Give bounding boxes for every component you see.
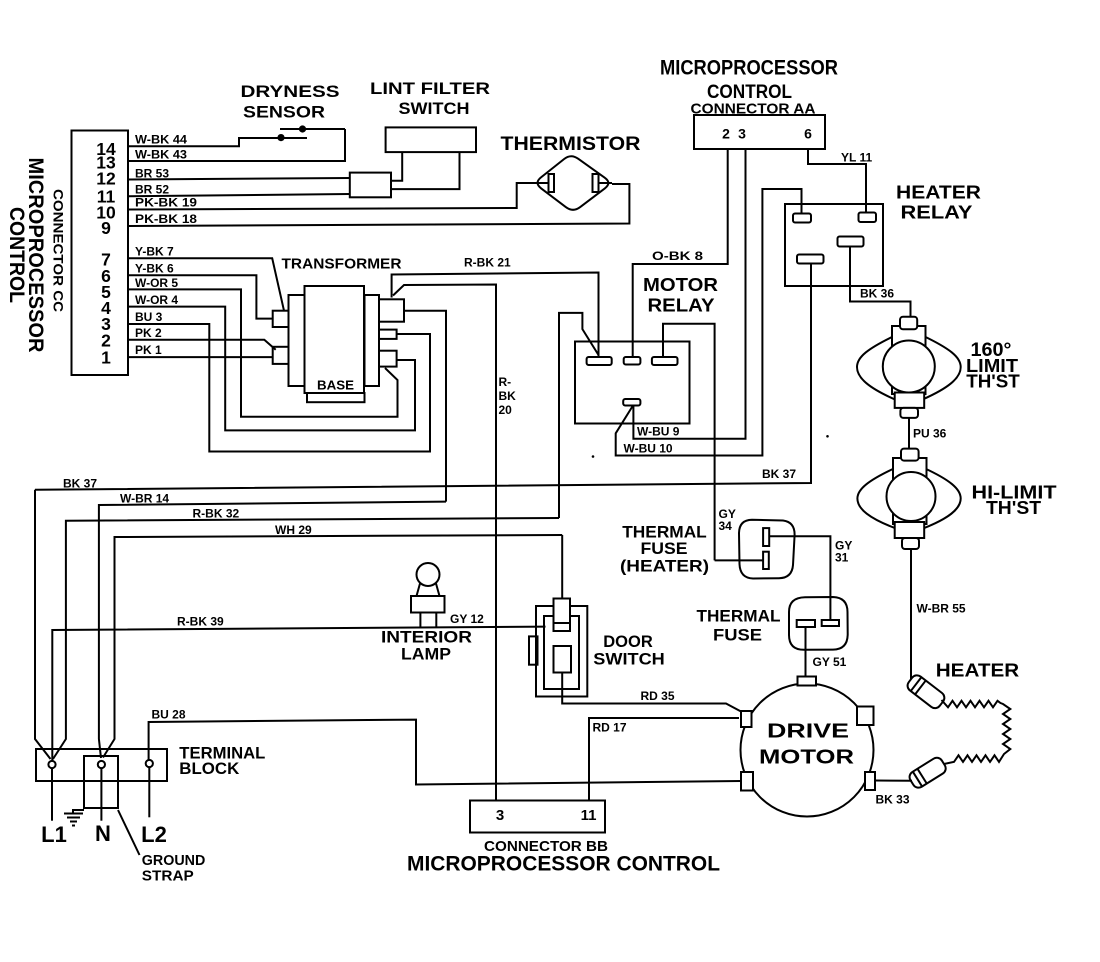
wire BK 33 — [875, 780, 912, 782]
wire Y-BK 7 — [128, 258, 284, 310]
transformer terminal right-top — [379, 299, 404, 321]
interior lamp legs — [420, 613, 436, 628]
svg-text:1: 1 — [101, 348, 111, 368]
svg-text:LAMP: LAMP — [401, 645, 451, 664]
svg-text:PK-BK 19: PK-BK 19 — [135, 196, 197, 210]
svg-text:THERMAL: THERMAL — [697, 608, 781, 626]
hi-limit thermostat lower block — [895, 522, 925, 538]
svg-text:BU 28: BU 28 — [152, 708, 186, 722]
door switch left tab — [529, 636, 538, 664]
wire W-BK 43 — [128, 129, 345, 161]
svg-text:RELAY: RELAY — [901, 202, 974, 223]
svg-text:3: 3 — [738, 126, 746, 142]
heater element zigzag — [942, 700, 1011, 765]
motor relay terminal right — [652, 357, 678, 365]
hi-limit thermostat top terminal — [901, 449, 919, 461]
svg-text:(HEATER): (HEATER) — [620, 557, 709, 576]
svg-text:W-BR 55: W-BR 55 — [917, 602, 966, 616]
svg-text:FUSE: FUSE — [713, 626, 762, 645]
wire N lead — [100, 768, 102, 821]
transformer terminal left-bottom — [273, 347, 289, 364]
interior lamp base — [411, 596, 445, 613]
svg-text:Y-BK 6: Y-BK 6 — [135, 262, 174, 276]
wire W-OR 4 — [128, 307, 415, 431]
hi-limit thermostat disc — [887, 472, 936, 521]
thermal fuse right pin — [822, 620, 839, 626]
motor relay terminal mid — [624, 357, 641, 365]
svg-text:TH'ST: TH'ST — [966, 372, 1020, 392]
svg-text:2: 2 — [722, 126, 730, 142]
svg-text:LINT FILTER: LINT FILTER — [370, 79, 490, 98]
svg-text:GY 12: GY 12 — [450, 612, 484, 626]
door switch outer box — [536, 606, 587, 697]
svg-text:HEATER: HEATER — [936, 660, 1020, 681]
svg-text:R-BK 32: R-BK 32 — [193, 507, 240, 521]
terminal N screw — [98, 761, 105, 768]
motor relay terminal bottom — [623, 399, 640, 406]
svg-text:GROUND: GROUND — [142, 853, 206, 869]
svg-text:THERMISTOR: THERMISTOR — [501, 134, 641, 155]
terminal L2 screw — [146, 760, 153, 767]
svg-text:O-BK 8: O-BK 8 — [652, 249, 703, 263]
svg-text:11: 11 — [581, 807, 597, 824]
heater relay terminal middle — [838, 237, 864, 247]
svg-text:W-OR 4: W-OR 4 — [135, 293, 178, 307]
svg-text:DRYNESS: DRYNESS — [241, 82, 340, 101]
motor relay terminal left — [587, 357, 612, 365]
160 deg limit thermostat bottom terminal — [900, 408, 918, 418]
thermal fuse body — [789, 597, 848, 650]
svg-text:YL 11: YL 11 — [841, 151, 872, 165]
wire GY 34 upper (motor relay right terminal loop) — [663, 324, 715, 561]
wire W-BK 44 — [128, 138, 307, 146]
svg-text:W-BK 44: W-BK 44 — [135, 133, 187, 147]
transformer terminal right-mid — [379, 330, 397, 339]
svg-text:SWITCH: SWITCH — [399, 99, 470, 118]
svg-text:20: 20 — [499, 403, 513, 417]
door switch inner box — [544, 616, 579, 689]
svg-text:DRIVE: DRIVE — [767, 721, 849, 743]
svg-text:34: 34 — [719, 519, 733, 533]
svg-text:BLOCK: BLOCK — [179, 760, 239, 778]
svg-text:STRAP: STRAP — [142, 869, 194, 885]
transformer terminal left-top — [273, 311, 289, 327]
transformer left flange — [289, 295, 306, 386]
transformer body — [305, 286, 365, 393]
svg-text:HEATER: HEATER — [896, 182, 981, 203]
wire W-BU 10 — [616, 189, 802, 456]
svg-text:W-BU 10: W-BU 10 — [624, 442, 673, 456]
drive motor circle — [741, 684, 874, 817]
dryness sensor upper contact — [280, 128, 345, 130]
thermistor body — [538, 156, 609, 210]
svg-text:CONTROL: CONTROL — [5, 207, 29, 303]
svg-text:BU 3: BU 3 — [135, 310, 163, 324]
160 deg limit thermostat wings — [857, 336, 961, 400]
svg-text:9: 9 — [101, 218, 111, 238]
svg-text:WH 29: WH 29 — [275, 523, 312, 537]
svg-text:L2: L2 — [141, 822, 167, 847]
wire R-BK 21 — [392, 273, 599, 358]
wire GY 34 into fuse — [715, 559, 764, 561]
wire BK 36 — [850, 247, 911, 318]
wire lint filter to small box left — [391, 152, 402, 181]
svg-text:W-BR 14: W-BR 14 — [120, 492, 169, 506]
door switch contact — [554, 646, 572, 673]
heater relay terminal top-left — [793, 214, 811, 223]
terminal L1 screw — [48, 761, 55, 768]
wire PU 36 — [908, 418, 910, 449]
heater relay terminal lower-left — [797, 255, 824, 264]
svg-text:W-OR 5: W-OR 5 — [135, 276, 178, 290]
transformer right flange — [365, 295, 380, 386]
svg-text:RD 35: RD 35 — [641, 689, 675, 703]
svg-text:FUSE: FUSE — [641, 539, 688, 558]
transformer base line — [307, 393, 365, 402]
wire R-BK 39 — [52, 627, 545, 761]
drive motor top terminal — [798, 677, 817, 686]
thermal fuse (heater) top pin — [763, 528, 769, 546]
drive motor right-top terminal — [857, 707, 874, 726]
connector AA box — [694, 115, 825, 149]
wire PK-BK 18 — [128, 184, 629, 226]
hi-limit thermostat wings — [857, 468, 960, 529]
heater upper connector — [905, 673, 947, 711]
wire L2 lead — [148, 767, 150, 817]
door switch plunger — [554, 599, 571, 632]
heater lower connector — [907, 755, 948, 789]
svg-text:BR 52: BR 52 — [135, 183, 169, 197]
wire W-BR 14 — [99, 502, 446, 758]
wire GY 31 — [769, 536, 830, 620]
thermal fuse left pin — [797, 620, 815, 627]
thermistor pin leads — [534, 182, 612, 184]
wire lint filter to small box right — [391, 152, 460, 189]
svg-text:RD 17: RD 17 — [593, 721, 627, 735]
svg-text:N: N — [95, 821, 111, 846]
thermal fuse (heater) body — [739, 520, 795, 579]
svg-text:R-BK 39: R-BK 39 — [177, 615, 224, 629]
thermistor left pin — [549, 174, 555, 192]
svg-text:SWITCH: SWITCH — [593, 650, 665, 669]
svg-text:PU 36: PU 36 — [913, 427, 947, 441]
heater relay terminal top-right — [859, 213, 877, 223]
svg-text:R-BK 21: R-BK 21 — [464, 256, 511, 270]
wire BR 53 — [128, 178, 350, 180]
160 deg limit thermostat top terminal — [900, 317, 917, 330]
wire R-BK 32 — [53, 518, 559, 759]
wire RD 17 — [589, 718, 739, 801]
wire W-BU 9 — [633, 149, 745, 439]
svg-text:R-: R- — [499, 375, 512, 389]
svg-text:W-BU 9: W-BU 9 — [637, 425, 680, 439]
svg-text:PK-BK 18: PK-BK 18 — [135, 212, 197, 226]
svg-text:RELAY: RELAY — [648, 296, 715, 316]
heater relay box — [785, 204, 883, 286]
thermal fuse (heater) bottom pin — [763, 552, 769, 569]
terminal block outer box — [36, 749, 167, 781]
wire PK 2 — [128, 340, 276, 350]
wire W-OR 5 — [128, 289, 398, 416]
transformer terminal right-bottom — [379, 351, 397, 367]
160 deg limit thermostat disc — [883, 341, 935, 393]
wire O-BK 8 — [633, 149, 728, 357]
svg-text:12: 12 — [96, 169, 116, 189]
connector BB box — [470, 801, 605, 833]
motor relay box — [575, 342, 690, 424]
ground strap leader line — [118, 810, 140, 855]
svg-text:BK: BK — [499, 389, 517, 403]
wire Y-BK 6 — [128, 275, 273, 318]
lint filter switch box — [386, 127, 476, 152]
wire R-BK 32 upper bend — [559, 313, 599, 518]
160 deg limit thermostat lower block — [895, 393, 925, 408]
svg-text:TH'ST: TH'ST — [986, 498, 1041, 518]
svg-text:GY 51: GY 51 — [813, 655, 847, 669]
svg-text:BK 36: BK 36 — [860, 287, 894, 301]
wire PK 1 — [128, 356, 273, 358]
speck dot — [826, 435, 829, 438]
wire L1 lead — [51, 768, 53, 821]
wire W-BR 55 — [910, 550, 912, 681]
svg-text:31: 31 — [835, 551, 849, 565]
wire YL 11 — [808, 149, 866, 213]
svg-text:W-BK 43: W-BK 43 — [135, 148, 187, 162]
thermistor right pin — [593, 174, 599, 192]
connector CC box — [72, 131, 129, 376]
wire BR 52 — [128, 194, 350, 196]
wire BU 3 — [128, 324, 430, 452]
drive motor left-top terminal — [741, 711, 752, 727]
svg-text:BK 33: BK 33 — [876, 793, 910, 807]
svg-text:TRANSFORMER: TRANSFORMER — [282, 257, 403, 273]
wire BK 37 — [35, 264, 811, 490]
wire R-BK 20 — [393, 285, 496, 801]
dryness sensor contact dots — [277, 134, 284, 141]
svg-text:BK 37: BK 37 — [63, 477, 97, 491]
svg-text:MICROPROCESSOR: MICROPROCESSOR — [660, 56, 838, 80]
svg-text:BK 37: BK 37 — [762, 467, 796, 481]
interior lamp bulb — [417, 563, 440, 586]
svg-text:Y-BK 7: Y-BK 7 — [135, 245, 174, 259]
160 deg limit thermostat body — [892, 326, 926, 394]
wire W-BR 14 upper — [404, 311, 446, 502]
svg-text:BR 53: BR 53 — [135, 167, 169, 181]
hi-limit thermostat body — [893, 458, 927, 524]
wire BK 37 left drop — [35, 490, 51, 759]
svg-text:6: 6 — [804, 126, 812, 142]
svg-text:SENSOR: SENSOR — [243, 103, 325, 122]
wire GY 51 — [805, 627, 807, 677]
terminal block inner box — [84, 756, 118, 808]
svg-text:MICROPROCESSOR CONTROL: MICROPROCESSOR CONTROL — [407, 853, 720, 876]
speck dot — [592, 455, 595, 458]
svg-text:PK 1: PK 1 — [135, 343, 162, 357]
svg-text:L1: L1 — [41, 822, 67, 847]
svg-text:MOTOR: MOTOR — [643, 275, 718, 295]
lint filter connector small box — [350, 173, 391, 198]
wire WH 29 drop to door switch — [561, 535, 563, 598]
wire WH 29 — [103, 535, 562, 758]
svg-text:DOOR: DOOR — [603, 632, 653, 651]
wire PK-BK 19 — [128, 183, 534, 210]
svg-text:PK 2: PK 2 — [135, 326, 162, 340]
hi-limit thermostat bottom terminal — [902, 538, 919, 549]
svg-text:BASE: BASE — [317, 379, 354, 393]
wire RD 35 — [562, 673, 741, 712]
svg-text:MOTOR: MOTOR — [759, 747, 855, 769]
svg-text:CONNECTOR CC: CONNECTOR CC — [51, 189, 67, 312]
drive motor left-bottom terminal — [741, 772, 753, 791]
drive motor right-bottom terminal — [865, 772, 875, 790]
svg-text:3: 3 — [496, 807, 504, 824]
ground strap symbol — [64, 810, 84, 826]
interior lamp neck — [417, 584, 440, 597]
wire BU 28 — [149, 720, 741, 785]
